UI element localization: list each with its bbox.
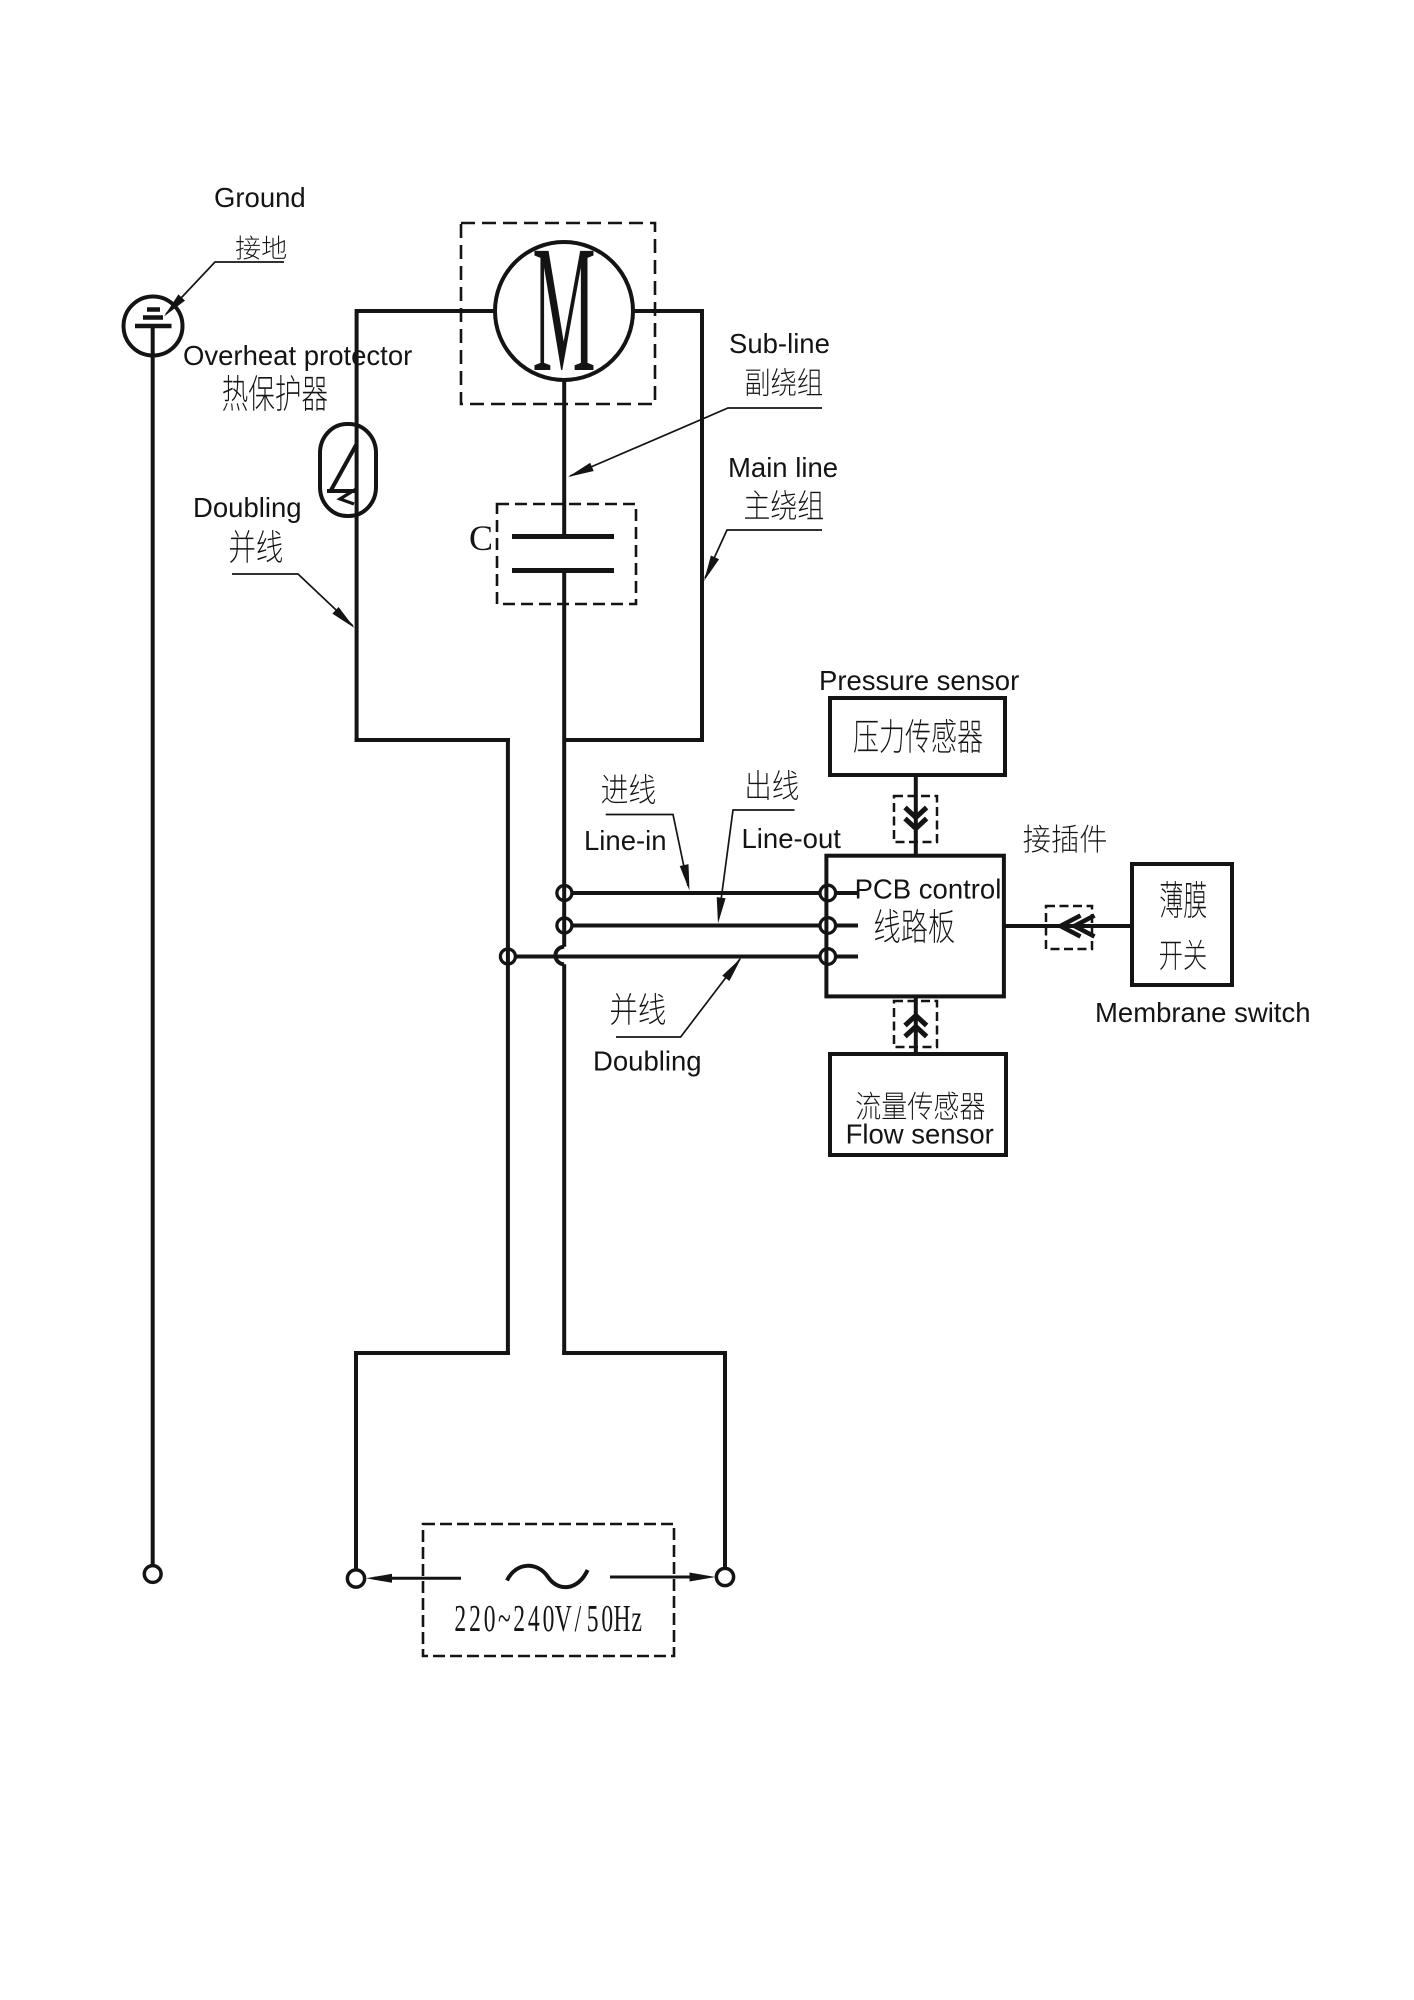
wire row3 to PCB [516, 955, 821, 959]
leader line main line [705, 530, 822, 578]
label 220~240V/50Hz [454, 1597, 642, 1639]
wire hop of capacitor line over row3 [555, 947, 564, 965]
svg-text:Flow sensor: Flow sensor [846, 1119, 994, 1150]
overheat protector blade [327, 444, 357, 492]
leader line line-in [606, 815, 688, 887]
supply sine wave [507, 1566, 588, 1587]
svg-text:Line-out: Line-out [742, 823, 842, 854]
svg-text:Doubling: Doubling [593, 1046, 702, 1077]
svg-text:0: 0 [484, 1597, 496, 1639]
wire left branch vertical [354, 1351, 358, 1570]
terminal circle supply left [347, 1570, 364, 1587]
svg-text:0: 0 [543, 1597, 555, 1639]
PCB terminal circle row3 [820, 949, 836, 965]
svg-text:Line-in: Line-in [584, 825, 667, 856]
svg-text:Doubling: Doubling [193, 492, 302, 523]
svg-text:2: 2 [454, 1597, 466, 1639]
wire: motor right [633, 309, 704, 313]
leader arrowhead at ground symbol [164, 294, 185, 316]
label 开关 (switch CN) [1160, 940, 1206, 970]
leader arrowhead doubling bottom [722, 958, 741, 982]
wire: motor left to doubling branch [355, 309, 495, 313]
svg-text:Membrane switch: Membrane switch [1095, 997, 1311, 1028]
supply right arrow line [610, 1576, 707, 1579]
terminal circle supply right [716, 1568, 733, 1585]
leader line line-out [719, 810, 795, 919]
membrane switch box [1132, 864, 1232, 985]
overheat protector body [320, 424, 376, 516]
wire right branch horizontal [562, 1351, 727, 1355]
svg-text:Sub-line: Sub-line [729, 328, 830, 359]
svg-text:Main line: Main line [728, 452, 838, 483]
leader line to ground symbol [166, 262, 284, 314]
svg-text:/: / [575, 1597, 582, 1639]
motor circle [495, 242, 633, 380]
wire: ground stem down to supply [151, 326, 155, 1566]
supply left arrow line [374, 1577, 461, 1580]
label 线路板 (circuit board CN) [875, 909, 954, 943]
ground symbol bars [135, 310, 172, 327]
terminal circle line-in row1 [557, 886, 572, 901]
wire: capacitor down to line-out terminals [562, 570, 566, 947]
svg-text:Pressure sensor: Pressure sensor [819, 665, 1019, 696]
label 进线 (line-in CN) [602, 774, 655, 804]
wire right branch vertical [723, 1351, 727, 1569]
capacitor C plates [512, 537, 614, 571]
svg-text:PCB control: PCB control [855, 874, 1002, 905]
leader arrowhead doubling left [332, 607, 354, 628]
PCB stub row2 [836, 924, 858, 928]
svg-text:V: V [555, 1597, 572, 1639]
svg-text:z: z [631, 1597, 641, 1639]
connector dashed square flow [894, 1001, 937, 1047]
label 接地 (ground CN) [236, 235, 286, 259]
overheat protector contact arrow [340, 489, 356, 504]
terminal circle ground bottom [144, 1566, 161, 1583]
supply left arrowhead [366, 1574, 392, 1583]
svg-text:5: 5 [587, 1597, 599, 1639]
label 热保护器 (overheat protector CN) [223, 375, 327, 411]
label 流量传感器 (flow sensor CN) [856, 1092, 984, 1120]
wire row1 to PCB [572, 891, 820, 895]
wire pressure sensor to PCB [914, 775, 918, 856]
label 出线 (line-out CN) [748, 770, 799, 800]
wire PCB to flow sensor [914, 996, 918, 1054]
wire: capacitor line below hop [562, 964, 566, 1355]
svg-text:2: 2 [513, 1597, 525, 1639]
wire left branch horizontal [354, 1351, 510, 1355]
connector dashed square membrane [1046, 906, 1092, 949]
leader line sub-line [570, 408, 822, 476]
leader arrowhead line-in [680, 864, 690, 890]
leader arrowhead sub-line [568, 463, 594, 477]
wire: bottom of left loop [355, 738, 510, 742]
flow sensor box [830, 1054, 1006, 1155]
svg-text:M: M [532, 208, 595, 410]
PCB stub row3 [836, 955, 858, 959]
leader line doubling left [232, 574, 353, 626]
label 并线 (doubling CN, left) [230, 530, 282, 563]
svg-text:0: 0 [601, 1597, 613, 1639]
wire row2 to PCB [572, 924, 820, 928]
terminal circle row3 on left line [500, 949, 515, 964]
svg-text:Ground: Ground [214, 182, 306, 213]
wire: left line-in vertical down [506, 738, 510, 1355]
svg-text:2: 2 [469, 1597, 481, 1639]
connector chevrons membrane (pointing left) [1061, 916, 1095, 937]
connector chevrons pressure (pointing down) [905, 808, 927, 829]
label 副绕组 (sub winding CN) [746, 368, 822, 396]
PCB terminal circle row1 [820, 885, 836, 901]
wire: left vertical through overheat protector [355, 309, 359, 742]
label 薄膜 (membrane CN) [1160, 881, 1206, 918]
connector chevrons flow (pointing up) [905, 1016, 927, 1037]
pressure sensor box [830, 698, 1005, 775]
wire: junction capacitor line to main-line [564, 738, 704, 742]
leader arrowhead line-out [717, 897, 726, 923]
terminal circle row2 [557, 918, 572, 933]
supply right arrowhead [690, 1573, 716, 1582]
wire: main-line right vertical [700, 309, 704, 742]
PCB control box [826, 856, 1004, 997]
wire: motor bottom to capacitor [562, 380, 566, 536]
svg-text:~: ~ [498, 1597, 511, 1639]
connector dashed square pressure [894, 796, 937, 842]
svg-text:C: C [469, 518, 493, 558]
svg-text:Overheat protector: Overheat protector [183, 340, 412, 371]
PCB terminal circle row2 [820, 918, 836, 934]
capacitor dashed enclosure [497, 504, 636, 604]
label 压力传感器 (pressure sensor CN) [854, 719, 982, 753]
label 并线 (doubling CN, bottom) [611, 993, 665, 1025]
label 主绕组 (main winding CN) [745, 490, 823, 520]
wire PCB to membrane switch [1004, 924, 1132, 928]
leader line doubling bottom [616, 959, 740, 1037]
motor dashed enclosure [461, 223, 655, 404]
svg-text:H: H [613, 1597, 630, 1639]
ground symbol circle [124, 297, 183, 356]
label 接插件 (connector CN) [1024, 825, 1106, 853]
supply dashed box [423, 1524, 674, 1656]
leader arrowhead main line [704, 556, 719, 582]
svg-text:4: 4 [528, 1597, 540, 1639]
PCB stub row1 [836, 891, 858, 895]
